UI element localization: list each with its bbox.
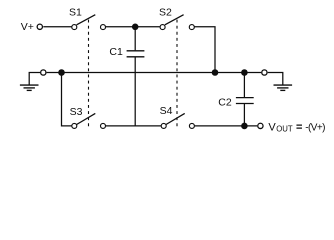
wire ground rail	[47, 72, 262, 74]
switch S1	[72, 15, 106, 30]
wire S1 to S2	[106, 26, 160, 28]
terminal ground rail right	[262, 70, 267, 75]
node C2 bottom junction	[241, 123, 248, 130]
svg-text:V+: V+	[21, 21, 34, 33]
ground symbol right	[274, 85, 293, 90]
wire V+ to S1	[43, 26, 71, 28]
node ground rail left junction	[58, 69, 65, 76]
wire S3 to S4	[106, 125, 161, 127]
switch S3	[72, 113, 106, 128]
ground symbol left	[20, 73, 40, 91]
terminal V+	[37, 24, 42, 29]
control dashed line S2-S4	[176, 20, 178, 127]
wire S2 to ground rail corner	[195, 27, 216, 73]
svg-text:V: V	[268, 121, 276, 133]
svg-text:-(V+): -(V+)	[305, 122, 325, 133]
node C2 top junction	[241, 69, 248, 76]
svg-text:C2: C2	[218, 97, 232, 109]
svg-text:OUT: OUT	[276, 125, 293, 134]
svg-text:S2: S2	[159, 7, 172, 19]
svg-text:S4: S4	[160, 105, 173, 117]
wire C1 bottom lead to bottom rail	[134, 57, 136, 126]
wire C1 top lead	[134, 27, 136, 51]
node S2 to ground rail junction	[212, 69, 219, 76]
switch S4	[161, 113, 194, 128]
svg-text:S1: S1	[69, 7, 82, 19]
wire C2 bottom lead	[243, 104, 245, 126]
node C1 top junction	[132, 24, 139, 31]
capacitor C2	[236, 98, 254, 104]
terminal VOUT	[258, 123, 263, 128]
svg-text:C1: C1	[109, 46, 123, 58]
wire C2 top lead	[243, 73, 245, 98]
terminal GND	[41, 70, 46, 75]
svg-text:=: =	[296, 121, 302, 133]
control dashed line S1-S3	[88, 20, 90, 127]
wire ground rail to S3	[62, 73, 72, 126]
capacitor C1	[127, 51, 145, 57]
wire to right ground	[268, 73, 283, 85]
switch S2	[160, 15, 194, 30]
wire S4 to VOUT	[195, 125, 257, 127]
svg-text:S3: S3	[70, 106, 83, 118]
